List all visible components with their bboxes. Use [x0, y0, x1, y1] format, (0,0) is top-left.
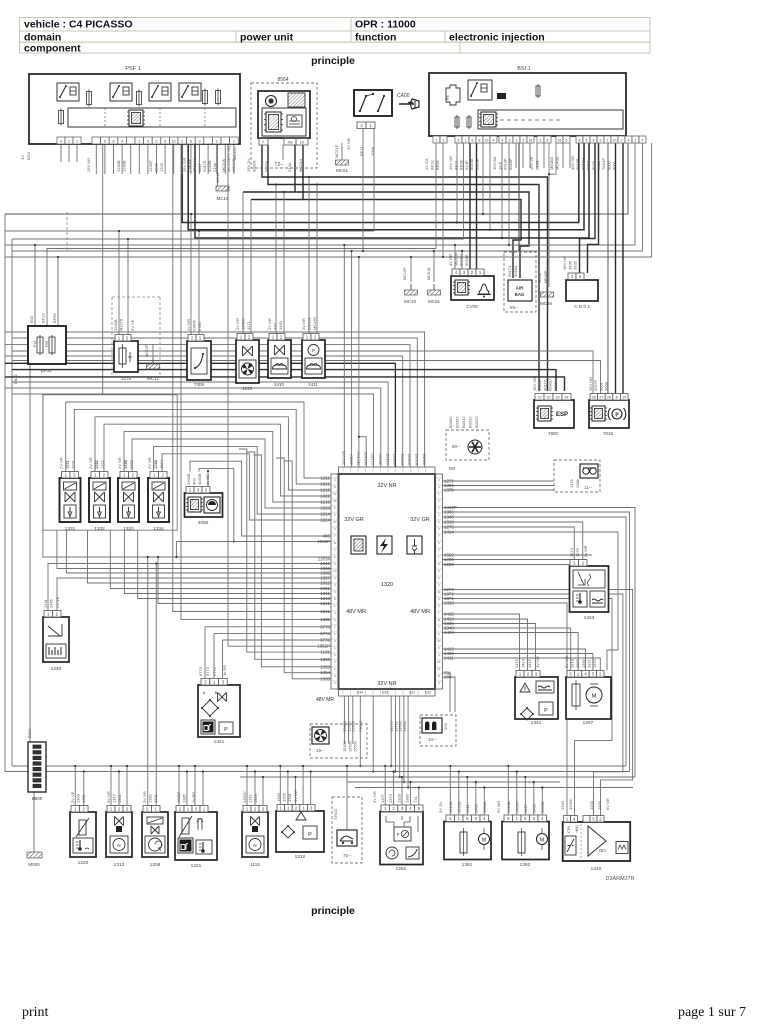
svg-text:28: 28 [592, 395, 596, 399]
svg-text:10: 10 [485, 139, 489, 143]
svg-text:1333: 1333 [589, 800, 594, 810]
svg-text:MC16V: MC16V [312, 316, 317, 330]
svg-text:2: 2 [438, 583, 440, 587]
svg-text:10V NR: 10V NR [448, 156, 453, 170]
svg-text:1333: 1333 [123, 526, 134, 532]
svg-text:1131: 1131 [321, 650, 331, 655]
svg-text:M: M [482, 838, 486, 844]
svg-text:6: 6 [438, 646, 440, 650]
svg-text:11: 11 [333, 541, 336, 545]
svg-text:2V GR: 2V GR [186, 319, 191, 331]
svg-text:8292Z: 8292Z [399, 453, 404, 465]
svg-text:T2--: T2-- [274, 162, 284, 168]
svg-text:4: 4 [628, 139, 630, 143]
svg-text:1324: 1324 [159, 459, 164, 469]
svg-text:1: 1 [334, 548, 336, 552]
svg-text:1211: 1211 [65, 460, 70, 469]
svg-text:32V NR: 32V NR [377, 483, 396, 489]
svg-text:2v MR: 2v MR [583, 545, 588, 557]
svg-text:1415: 1415 [514, 658, 519, 668]
svg-text:1336: 1336 [597, 800, 602, 810]
svg-text:1V: 1V [20, 155, 25, 160]
svg-text:1233: 1233 [242, 386, 253, 391]
svg-text:2: 2 [621, 139, 623, 143]
svg-text:7: 7 [438, 625, 440, 629]
svg-text:Z13A: Z13A [535, 160, 540, 170]
svg-text:1213: 1213 [320, 500, 330, 505]
svg-text:3V NR: 3V NR [106, 791, 111, 803]
svg-text:3310Z: 3310Z [385, 453, 390, 465]
svg-text:1333: 1333 [320, 676, 330, 681]
svg-text:15502: 15502 [351, 720, 356, 732]
svg-text:2V NR: 2V NR [88, 457, 93, 469]
svg-text:32V GR: 32V GR [410, 517, 430, 523]
svg-text:1351: 1351 [81, 793, 86, 803]
svg-text:2V VE: 2V VE [70, 791, 75, 803]
svg-text:1240C: 1240C [241, 318, 246, 330]
svg-text:2V NR: 2V NR [267, 318, 272, 330]
svg-text:16V NR: 16V NR [562, 256, 567, 270]
svg-text:4: 4 [121, 140, 123, 144]
svg-text:ME4MF: ME4MF [453, 251, 458, 266]
svg-text:8295Z: 8295Z [421, 453, 426, 465]
svg-text:10: 10 [437, 639, 441, 643]
svg-text:1221: 1221 [153, 793, 158, 803]
svg-text:1372: 1372 [592, 658, 597, 668]
svg-text:1229: 1229 [159, 162, 164, 172]
svg-text:D3ARMJ7R: D3ARMJ7R [605, 876, 634, 882]
svg-text:6V NR: 6V NR [605, 798, 610, 810]
svg-text:7800: 7800 [548, 431, 559, 436]
svg-text:F13: F13 [33, 341, 37, 347]
svg-text:1203C: 1203C [568, 798, 573, 810]
svg-text:16: 16 [437, 660, 441, 664]
svg-text:8: 8 [164, 140, 166, 144]
svg-text:2: 2 [68, 140, 70, 144]
svg-text:4: 4 [493, 139, 495, 143]
svg-text:9032A: 9032A [252, 160, 257, 172]
svg-text:1411: 1411 [308, 382, 318, 387]
svg-text:1214: 1214 [153, 459, 158, 469]
svg-text:BF13: BF13 [41, 313, 46, 323]
svg-text:1261: 1261 [396, 866, 407, 872]
svg-text:4: 4 [60, 140, 62, 144]
svg-text:9: 9 [334, 562, 336, 566]
svg-text:9018U: 9018U [459, 254, 464, 266]
svg-text:137b: 137b [444, 488, 454, 493]
svg-text:P: P [544, 708, 548, 714]
svg-text:1332: 1332 [94, 526, 105, 532]
svg-text:1: 1 [443, 139, 445, 143]
svg-text:1340: 1340 [560, 800, 565, 810]
svg-text:403: 403 [323, 534, 331, 539]
svg-text:1371: 1371 [586, 658, 591, 668]
svg-text:6: 6 [334, 513, 336, 517]
svg-text:5: 5 [334, 555, 336, 559]
svg-text:1410A: 1410A [448, 801, 453, 813]
svg-text:8294Z: 8294Z [407, 453, 412, 465]
svg-text:1363: 1363 [276, 792, 281, 802]
svg-text:1300: 1300 [76, 793, 81, 803]
svg-text:A: A [203, 690, 206, 695]
svg-text:1411: 1411 [465, 804, 470, 813]
svg-text:137b: 137b [569, 478, 574, 488]
svg-text:3: 3 [438, 485, 440, 489]
svg-text:CM161: CM161 [307, 316, 312, 330]
svg-text:80--: 80-- [452, 444, 461, 449]
svg-text:BF00: BF00 [41, 368, 52, 373]
svg-text:1: 1 [438, 611, 440, 615]
svg-text:9013P: 9013P [503, 158, 508, 170]
svg-text:7: 7 [262, 140, 265, 145]
svg-text:14: 14 [565, 395, 569, 399]
svg-text:120: 120 [273, 323, 278, 330]
svg-text:B0352: B0352 [455, 416, 460, 428]
svg-text:403: 403 [192, 478, 197, 485]
svg-text:2: 2 [181, 140, 183, 144]
svg-text:1356: 1356 [282, 792, 287, 802]
svg-text:6773: 6773 [320, 624, 330, 629]
svg-text:MC10J: MC10J [356, 452, 361, 465]
svg-text:3935: 3935 [573, 260, 578, 270]
svg-text:1341: 1341 [531, 720, 542, 726]
svg-text:P: P [224, 727, 228, 733]
svg-text:1240: 1240 [51, 666, 62, 672]
svg-text:ME10: ME10 [215, 172, 220, 183]
svg-text:65--: 65-- [510, 305, 519, 310]
svg-text:731: 731 [413, 796, 418, 803]
svg-text:5V NR: 5V NR [564, 656, 569, 668]
svg-text:1361: 1361 [117, 793, 122, 803]
svg-text:N: N [253, 843, 256, 848]
svg-text:1221: 1221 [320, 609, 330, 614]
svg-text:electronic injection: electronic injection [449, 32, 545, 44]
svg-text:2V NR: 2V NR [147, 457, 152, 469]
svg-text:5V MR: 5V MR [496, 801, 501, 813]
svg-text:Z14A: Z14A [287, 162, 292, 172]
svg-text:page 1 sur 7: page 1 sur 7 [678, 1005, 746, 1020]
svg-text:2: 2 [156, 140, 158, 144]
svg-text:1240B: 1240B [113, 319, 118, 331]
svg-text:3V GR: 3V GR [293, 790, 298, 802]
svg-text:3v RG: 3v RG [222, 665, 227, 676]
svg-text:4: 4 [334, 583, 336, 587]
svg-text:7392Z: 7392Z [333, 808, 338, 820]
svg-text:48V MR: 48V MR [316, 697, 334, 703]
svg-text:1352C: 1352C [242, 791, 247, 803]
svg-text:N: N [117, 843, 120, 848]
svg-text:1226: 1226 [154, 162, 159, 172]
svg-text:7: 7 [334, 534, 336, 538]
svg-text:X8: X8 [288, 140, 294, 145]
svg-text:C O 0 1: C O 0 1 [574, 304, 590, 309]
svg-text:3: 3 [334, 527, 336, 531]
svg-text:1324: 1324 [320, 518, 330, 523]
svg-text:1319: 1319 [570, 658, 575, 668]
svg-text:1356: 1356 [253, 793, 258, 803]
svg-text:component: component [24, 43, 81, 55]
svg-text:1334: 1334 [153, 526, 164, 532]
svg-text:8: 8 [334, 597, 336, 601]
svg-text:3v BE: 3v BE [205, 474, 210, 485]
svg-text:9030V: 9030V [553, 379, 558, 391]
svg-text:5178C: 5178C [370, 453, 375, 465]
svg-text:1321: 1321 [71, 459, 76, 469]
svg-text:1414: 1414 [444, 530, 454, 535]
svg-text:1385: 1385 [320, 617, 330, 622]
svg-text:1: 1 [334, 646, 336, 650]
svg-text:E31: E31 [409, 691, 415, 695]
svg-text:10: 10 [300, 140, 305, 145]
svg-text:6: 6 [438, 569, 440, 573]
svg-text:27: 27 [599, 395, 603, 399]
svg-text:13: 13 [333, 569, 337, 573]
svg-text:6: 6 [334, 590, 336, 594]
svg-text:2V GA: 2V GA [424, 158, 429, 170]
svg-text:2: 2 [334, 660, 336, 664]
svg-text:90174: 90174 [507, 265, 512, 277]
svg-text:1460: 1460 [278, 320, 283, 330]
svg-text:4: 4 [438, 576, 440, 580]
svg-text:1362: 1362 [520, 862, 531, 868]
svg-text:MC12: MC12 [147, 376, 160, 381]
svg-text:1382: 1382 [148, 793, 153, 803]
svg-text:8: 8 [579, 139, 581, 143]
svg-text:7: 7 [438, 534, 440, 538]
svg-text:9018A: 9018A [513, 265, 518, 277]
svg-text:1365: 1365 [581, 658, 586, 668]
svg-text:1321: 1321 [320, 601, 330, 606]
svg-text:7306: 7306 [194, 382, 205, 387]
svg-text:6: 6 [566, 139, 568, 143]
svg-text:4: 4 [438, 520, 440, 524]
svg-text:E34: E34 [357, 691, 363, 695]
svg-text:1409: 1409 [532, 803, 537, 813]
svg-text:MC10: MC10 [216, 196, 229, 201]
svg-text:10--: 10-- [428, 737, 437, 742]
svg-text:1: 1 [607, 139, 609, 143]
svg-text:BF13: BF13 [430, 160, 435, 170]
svg-text:12: 12 [333, 492, 337, 496]
svg-text:26: 26 [607, 395, 611, 399]
svg-text:power unit: power unit [240, 32, 294, 44]
svg-text:9: 9 [199, 140, 201, 144]
svg-text:8293Z: 8293Z [414, 453, 419, 465]
svg-text:4060: 4060 [198, 520, 209, 526]
svg-text:1409: 1409 [444, 630, 454, 635]
svg-text:BF09: BF09 [435, 160, 440, 170]
svg-text:M000: M000 [28, 862, 40, 867]
svg-text:CA00: CA00 [397, 93, 410, 99]
svg-text:1060A: 1060A [482, 801, 487, 813]
svg-text:F: F [397, 832, 400, 837]
svg-text:1: 1 [438, 513, 440, 517]
svg-text:1208: 1208 [150, 862, 161, 868]
svg-text:2V GR: 2V GR [235, 318, 240, 330]
svg-text:75--: 75-- [343, 853, 352, 858]
svg-text:E33: E33 [382, 691, 388, 695]
svg-text:1240B: 1240B [116, 160, 121, 172]
svg-text:1312: 1312 [295, 854, 306, 860]
svg-text:78427: 78427 [378, 453, 383, 465]
svg-text:1352B: 1352B [457, 801, 462, 813]
svg-text:16: 16 [333, 499, 337, 503]
svg-text:1320: 1320 [381, 582, 393, 588]
svg-text:9018P: 9018P [508, 158, 513, 170]
svg-text:1414: 1414 [521, 658, 526, 668]
svg-text:10217: 10217 [348, 453, 353, 465]
svg-text:1410: 1410 [274, 382, 285, 387]
svg-text:10: 10 [333, 520, 337, 524]
svg-text:3936: 3936 [567, 260, 572, 270]
svg-text:1353: 1353 [320, 664, 330, 669]
svg-text:MC12P: MC12P [145, 344, 149, 357]
svg-text:1230P: 1230P [148, 160, 153, 172]
svg-text:4030B: 4030B [197, 473, 202, 485]
svg-text:1379: 1379 [388, 793, 393, 803]
svg-text:ME10J: ME10J [232, 148, 237, 160]
svg-text:8: 8 [547, 139, 549, 143]
svg-text:3V NR: 3V NR [346, 138, 351, 150]
svg-text:11--: 11-- [584, 485, 592, 490]
svg-text:5V NR: 5V NR [372, 791, 377, 803]
svg-text:8564: 8564 [277, 77, 288, 83]
svg-text:13: 13 [437, 590, 441, 594]
svg-text:1271: 1271 [246, 320, 251, 330]
svg-text:1: 1 [216, 140, 218, 144]
svg-text:15502: 15502 [353, 740, 358, 752]
svg-text:3: 3 [509, 139, 511, 143]
svg-text:1356: 1356 [320, 657, 330, 662]
svg-text:Z14P: Z14P [464, 160, 469, 170]
svg-text:BE08-: BE08- [459, 158, 464, 170]
svg-text:1203B: 1203B [186, 473, 191, 485]
svg-text:7015: 7015 [603, 431, 614, 436]
svg-text:5: 5 [334, 618, 336, 622]
svg-text:1321: 1321 [214, 739, 225, 745]
svg-text:ME4B0: ME4B0 [549, 156, 554, 170]
svg-text:4: 4 [334, 639, 336, 643]
svg-text:2: 2 [438, 478, 440, 482]
svg-text:9024A: 9024A [469, 158, 474, 170]
svg-text:2: 2 [438, 499, 440, 503]
svg-text:9003: 9003 [604, 381, 609, 391]
svg-text:1323: 1323 [320, 506, 330, 511]
svg-text:9: 9 [593, 139, 595, 143]
svg-text:6: 6 [540, 139, 542, 143]
svg-text:16: 16 [558, 139, 562, 143]
svg-text:1322: 1322 [320, 494, 330, 499]
svg-text:26V NR: 26V NR [86, 158, 91, 172]
svg-text:8: 8 [438, 674, 440, 678]
svg-text:+B41: +B41 [575, 825, 579, 833]
svg-text:5: 5 [190, 140, 192, 144]
svg-text:2: 2 [334, 506, 336, 510]
svg-text:1213: 1213 [123, 459, 128, 469]
svg-text:B0342: B0342 [461, 416, 466, 428]
svg-text:2V NR: 2V NR [301, 318, 306, 330]
svg-text:104: 104 [444, 675, 452, 680]
svg-text:principle: principle [311, 55, 355, 67]
svg-text:BB32: BB32 [13, 373, 18, 384]
svg-text:1343: 1343 [584, 615, 595, 621]
svg-text:15--: 15-- [316, 748, 325, 753]
svg-text:M1276: M1276 [119, 318, 124, 331]
svg-text:5: 5 [523, 139, 525, 143]
svg-text:48V MR: 48V MR [346, 609, 366, 615]
svg-text:5: 5 [147, 140, 149, 144]
svg-text:PSF 1: PSF 1 [125, 66, 140, 72]
svg-text:3: 3 [438, 632, 440, 636]
svg-text:1354: 1354 [320, 670, 330, 675]
svg-text:9: 9 [438, 597, 440, 601]
svg-text:F8: F8 [446, 96, 450, 100]
svg-text:B0322: B0322 [474, 416, 479, 428]
svg-text:1415: 1415 [527, 658, 532, 668]
svg-text:106A: 106A [370, 146, 375, 156]
svg-text:23: 23 [538, 395, 542, 399]
svg-text:2: 2 [438, 653, 440, 657]
svg-text:1310: 1310 [444, 601, 454, 606]
svg-text:1: 1 [334, 667, 336, 671]
svg-text:1275: 1275 [575, 547, 580, 557]
svg-text:10-6: 10-6 [497, 161, 502, 170]
svg-text:MC51P: MC51P [334, 144, 339, 158]
svg-text:E32: E32 [425, 691, 431, 695]
svg-text:BG3: BG3 [26, 151, 31, 160]
svg-text:CTN: CTN [567, 825, 571, 833]
svg-text:3: 3 [334, 653, 336, 657]
svg-text:15402: 15402 [342, 740, 347, 752]
svg-text:M: M [592, 694, 597, 700]
svg-text:1313: 1313 [114, 862, 125, 868]
svg-text:213A: 213A [212, 162, 217, 172]
svg-text:7: 7 [334, 625, 336, 629]
svg-text:1385: 1385 [182, 793, 187, 803]
svg-text:1: 1 [138, 140, 140, 144]
svg-text:CV00: CV00 [466, 304, 478, 309]
svg-text:MC51B: MC51B [427, 267, 431, 280]
svg-text:13602: 13602 [402, 720, 407, 732]
svg-text:5: 5 [458, 139, 460, 143]
svg-text:CM06: CM06 [192, 320, 197, 331]
svg-text:32V NR: 32V NR [377, 681, 396, 687]
svg-text:MC51: MC51 [336, 168, 349, 173]
svg-text:9020A: 9020A [264, 160, 269, 172]
svg-text:2V NR: 2V NR [117, 457, 122, 469]
svg-text:OPR : 11000: OPR : 11000 [355, 19, 416, 31]
svg-text:138b: 138b [575, 478, 580, 488]
svg-text:2: 2 [334, 576, 336, 580]
svg-text:M: M [540, 838, 544, 844]
svg-text:1377: 1377 [380, 793, 385, 803]
svg-text:1060B: 1060B [540, 801, 545, 813]
svg-text:B0332: B0332 [468, 416, 473, 428]
svg-text:48V MR: 48V MR [410, 609, 430, 615]
svg-text:3: 3 [600, 139, 602, 143]
svg-text:3V NR: 3V NR [535, 656, 540, 668]
svg-text:1214: 1214 [320, 512, 330, 517]
svg-text:MC10P: MC10P [403, 267, 407, 280]
svg-text:8: 8 [334, 485, 336, 489]
svg-text:1311: 1311 [248, 794, 253, 803]
svg-text:MC46: MC46 [538, 273, 542, 283]
svg-text:BAG: BAG [515, 292, 525, 297]
svg-text:MC10C: MC10C [363, 451, 368, 465]
svg-text:19: 19 [622, 395, 626, 399]
svg-text:E037: E037 [27, 728, 32, 738]
svg-text:16V VE: 16V VE [529, 156, 534, 170]
